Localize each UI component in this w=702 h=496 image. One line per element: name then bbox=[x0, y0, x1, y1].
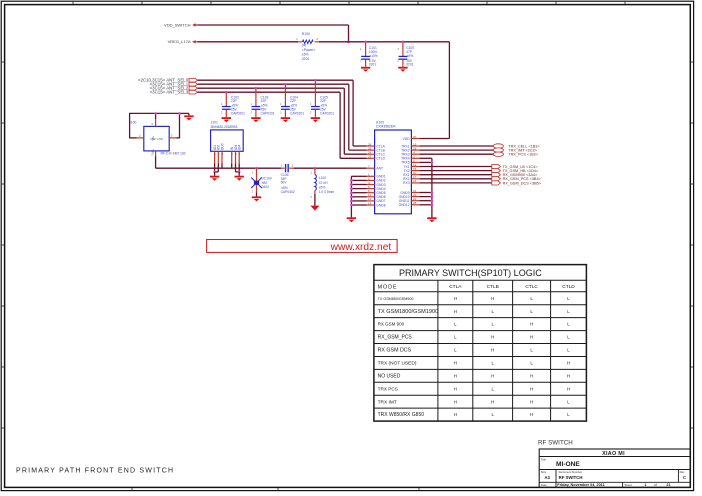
wire ANT feed right bbox=[294, 167, 367, 169]
capacitor C102 bbox=[221, 91, 245, 117]
svg-text:IO4: IO4 bbox=[238, 145, 242, 151]
svg-text:H: H bbox=[567, 373, 570, 378]
svg-text:28: 28 bbox=[413, 201, 417, 205]
svg-text:0402: 0402 bbox=[262, 185, 270, 189]
svg-text:www.xrdz.net: www.xrdz.net bbox=[330, 242, 392, 253]
svg-text:1.0 0.5mm: 1.0 0.5mm bbox=[319, 190, 335, 194]
RF switch U100 bbox=[367, 120, 420, 213]
svg-text:NO USED: NO USED bbox=[378, 373, 401, 379]
svg-text:CTLA: CTLA bbox=[449, 284, 462, 290]
node RX_GSM_PCS bbox=[420, 177, 542, 182]
svg-text:±10%: ±10% bbox=[369, 54, 377, 58]
svg-text:RF-C-R-SMT 160: RF-C-R-SMT 160 bbox=[161, 152, 186, 156]
svg-text:NM: NM bbox=[262, 181, 267, 185]
capacitor C101 bbox=[360, 41, 378, 67]
svg-text:CAP0201: CAP0201 bbox=[261, 111, 275, 115]
svg-text:14: 14 bbox=[368, 201, 372, 205]
svg-text:RX_GSM_DCS <3B5>: RX_GSM_DCS <3B5> bbox=[503, 181, 542, 185]
capacitor C105 bbox=[310, 79, 334, 117]
svg-text:CXM3582ER: CXM3582ER bbox=[376, 125, 396, 129]
ground bbox=[252, 196, 261, 201]
svg-text:H: H bbox=[454, 412, 457, 417]
svg-text:±5%: ±5% bbox=[319, 185, 326, 189]
svg-text:0201: 0201 bbox=[406, 63, 414, 67]
inductor L100 bbox=[311, 167, 335, 206]
svg-text:CAP0201: CAP0201 bbox=[290, 111, 304, 115]
wire J101 pins left group bbox=[215, 163, 222, 172]
node VREG_L17A bbox=[168, 39, 198, 44]
wire ANT feed bbox=[156, 156, 281, 168]
ground bbox=[361, 67, 370, 72]
wire VDD_SWITCH bbox=[198, 25, 349, 42]
svg-text:CAP0201: CAP0201 bbox=[231, 111, 245, 115]
svg-text:TRX_PCS <1B2>: TRX_PCS <1B2> bbox=[508, 153, 539, 157]
node ANT_SEL1 port bbox=[150, 82, 198, 87]
svg-text:H: H bbox=[530, 373, 533, 378]
svg-text:H: H bbox=[530, 322, 533, 327]
svg-text:PRIMARY SWITCH(SP10T) LOGIC: PRIMARY SWITCH(SP10T) LOGIC bbox=[399, 268, 542, 278]
svg-text:TRX W850/RX G850: TRX W850/RX G850 bbox=[378, 412, 425, 418]
svg-text:MM4830-2618RB3: MM4830-2618RB3 bbox=[211, 125, 238, 129]
svg-text:VDD: VDD bbox=[403, 137, 411, 141]
svg-text:VC100: VC100 bbox=[262, 176, 272, 180]
logic table bbox=[374, 265, 587, 422]
svg-text:RF SWITCH: RF SWITCH bbox=[559, 475, 583, 480]
svg-text:1: 1 bbox=[644, 483, 646, 487]
wire ANT_SEL1 bbox=[198, 84, 367, 150]
node ANT_SEL3 port bbox=[150, 90, 198, 95]
wire VDD rail bbox=[319, 42, 450, 139]
svg-text:C: C bbox=[683, 475, 686, 480]
svg-text:MODE: MODE bbox=[378, 284, 398, 290]
svg-text:RX GSM 900: RX GSM 900 bbox=[378, 322, 405, 327]
svg-text:RX GSM DCS: RX GSM DCS bbox=[378, 348, 412, 354]
svg-text:±5%: ±5% bbox=[302, 53, 309, 57]
junction VDD bbox=[347, 41, 350, 44]
svg-text:H: H bbox=[530, 399, 533, 404]
svg-text:Sheet: Sheet bbox=[624, 483, 632, 487]
svg-text:VREG_L17A: VREG_L17A bbox=[168, 39, 191, 44]
svg-text:VDD_SWITCH: VDD_SWITCH bbox=[164, 22, 191, 27]
node TRX_PCS bbox=[420, 152, 539, 157]
svg-text:0201: 0201 bbox=[369, 63, 377, 67]
capacitor C104 bbox=[280, 83, 304, 117]
svg-text:CTLD: CTLD bbox=[562, 284, 575, 290]
capacitor C100 bbox=[397, 41, 414, 67]
svg-text:TX GSM850/GSM900: TX GSM850/GSM900 bbox=[378, 297, 414, 301]
node ANT_SEL2 port bbox=[150, 86, 198, 91]
svg-text:H: H bbox=[491, 296, 494, 301]
node TRX_IMT bbox=[420, 148, 538, 153]
svg-text:<Power>: <Power> bbox=[302, 48, 316, 52]
node RX_GSM900 bbox=[420, 173, 538, 178]
svg-text:H: H bbox=[530, 386, 533, 391]
sheet name bbox=[16, 467, 174, 474]
wire ANT_SEL2 bbox=[198, 88, 367, 154]
node VDD_SWITCH bbox=[164, 22, 198, 27]
svg-text:XIAO MI: XIAO MI bbox=[602, 451, 625, 457]
wire ANT_SEL0 bbox=[198, 80, 367, 146]
svg-text:RX3: RX3 bbox=[403, 181, 410, 185]
watermark box bbox=[207, 240, 398, 254]
svg-text:H: H bbox=[491, 335, 494, 340]
ground bbox=[210, 172, 219, 181]
svg-text:SIG: SIG bbox=[151, 136, 155, 141]
svg-text:16: 16 bbox=[413, 179, 417, 183]
connector J100 bbox=[129, 119, 186, 156]
svg-text:Title: Title bbox=[541, 457, 547, 461]
ESD array J101 bbox=[211, 121, 244, 164]
ground bbox=[427, 217, 436, 222]
svg-text:H: H bbox=[454, 309, 457, 314]
svg-text:R100: R100 bbox=[302, 32, 310, 36]
ground bbox=[398, 67, 407, 72]
node ANT_SEL0 port bbox=[138, 78, 198, 83]
ground bbox=[281, 117, 290, 122]
svg-text:CAP0402: CAP0402 bbox=[281, 190, 295, 194]
svg-text:Document Number: Document Number bbox=[559, 470, 583, 474]
ground bbox=[222, 117, 231, 122]
ground bbox=[184, 113, 193, 120]
svg-text:±5%: ±5% bbox=[407, 54, 414, 58]
svg-text:H: H bbox=[454, 386, 457, 391]
resistor R100 bbox=[296, 32, 319, 61]
svg-text:H: H bbox=[567, 361, 570, 366]
wire VREG_L17A bbox=[198, 41, 299, 43]
wire J101 pins right group bbox=[232, 163, 240, 172]
junction bbox=[238, 171, 241, 174]
svg-text:20: 20 bbox=[413, 135, 417, 139]
svg-text:A3: A3 bbox=[545, 475, 551, 480]
svg-text:Friday, November 04, 2011: Friday, November 04, 2011 bbox=[557, 483, 604, 487]
svg-text:H: H bbox=[454, 361, 457, 366]
svg-text:GND12: GND12 bbox=[399, 203, 410, 207]
svg-text:Rev: Rev bbox=[680, 470, 686, 474]
svg-text:PRIMARY PATH FRONT END SWITCH: PRIMARY PATH FRONT END SWITCH bbox=[16, 467, 174, 474]
svg-text:H: H bbox=[454, 296, 457, 301]
svg-text:<3C15> ANT_SEL3: <3C15> ANT_SEL3 bbox=[150, 90, 189, 95]
ground bbox=[310, 206, 319, 211]
junction bbox=[154, 112, 181, 115]
svg-text:H: H bbox=[454, 373, 457, 378]
ground bbox=[251, 117, 260, 122]
svg-text:CTLD: CTLD bbox=[376, 157, 385, 161]
svg-text:SIG: SIG bbox=[151, 149, 155, 154]
node RX_GSM_DCS bbox=[420, 181, 542, 186]
svg-text:Date:: Date: bbox=[541, 483, 548, 487]
wire U100 left ground bus bbox=[351, 176, 366, 217]
title block bbox=[538, 440, 690, 488]
svg-text:GND8: GND8 bbox=[376, 203, 385, 207]
svg-text:TRX IMT: TRX IMT bbox=[378, 399, 397, 405]
capacitor C106 bbox=[281, 163, 295, 194]
svg-text:H: H bbox=[491, 348, 494, 353]
svg-text:CTLB: CTLB bbox=[487, 284, 499, 290]
svg-text:H: H bbox=[530, 335, 533, 340]
svg-text:H: H bbox=[454, 399, 457, 404]
svg-text:H: H bbox=[491, 399, 494, 404]
ground bbox=[347, 217, 356, 222]
wire ANT_SEL3 bbox=[198, 92, 367, 158]
svg-text:0R: 0R bbox=[302, 44, 307, 48]
svg-text:TRX (NOT USED): TRX (NOT USED) bbox=[378, 361, 417, 367]
node TX_GSM_LB bbox=[420, 164, 539, 169]
node TRX_CELL bbox=[420, 144, 541, 149]
node TX_GSM_HB bbox=[420, 169, 539, 174]
svg-text:23: 23 bbox=[368, 155, 372, 159]
svg-text:50V: 50V bbox=[281, 181, 288, 185]
svg-text:47 nH: 47 nH bbox=[319, 181, 328, 185]
svg-text:21: 21 bbox=[666, 483, 670, 487]
svg-text:RF SWITCH: RF SWITCH bbox=[538, 440, 573, 447]
junction bbox=[431, 161, 434, 206]
svg-text:TRX PCS: TRX PCS bbox=[378, 386, 398, 391]
svg-text:of: of bbox=[654, 483, 657, 487]
ground bbox=[311, 117, 320, 122]
junction bbox=[213, 171, 216, 174]
svg-text:H: H bbox=[491, 373, 494, 378]
svg-text:MI-ONE: MI-ONE bbox=[556, 461, 580, 468]
svg-text:RX_GSM_PCS: RX_GSM_PCS bbox=[378, 335, 413, 341]
capacitor C103 bbox=[250, 87, 274, 117]
svg-text:0201: 0201 bbox=[302, 57, 310, 61]
svg-text:Size: Size bbox=[541, 470, 547, 474]
svg-text:L100: L100 bbox=[319, 176, 327, 180]
varistor VC100 bbox=[251, 167, 272, 197]
wire U100 right ground bus bbox=[420, 158, 432, 217]
svg-text:ANT: ANT bbox=[376, 167, 383, 171]
wire J100 ground loop bbox=[130, 113, 189, 138]
svg-text:H: H bbox=[567, 386, 570, 391]
ground bbox=[235, 172, 244, 181]
svg-text:H: H bbox=[530, 412, 533, 417]
svg-text:CAP0201: CAP0201 bbox=[320, 111, 334, 115]
svg-text:CTLC: CTLC bbox=[525, 284, 538, 290]
junction bbox=[350, 179, 353, 206]
svg-text:OUT: OUT bbox=[220, 143, 224, 150]
svg-text:TX GSM1800/GSM1900: TX GSM1800/GSM1900 bbox=[378, 309, 439, 315]
